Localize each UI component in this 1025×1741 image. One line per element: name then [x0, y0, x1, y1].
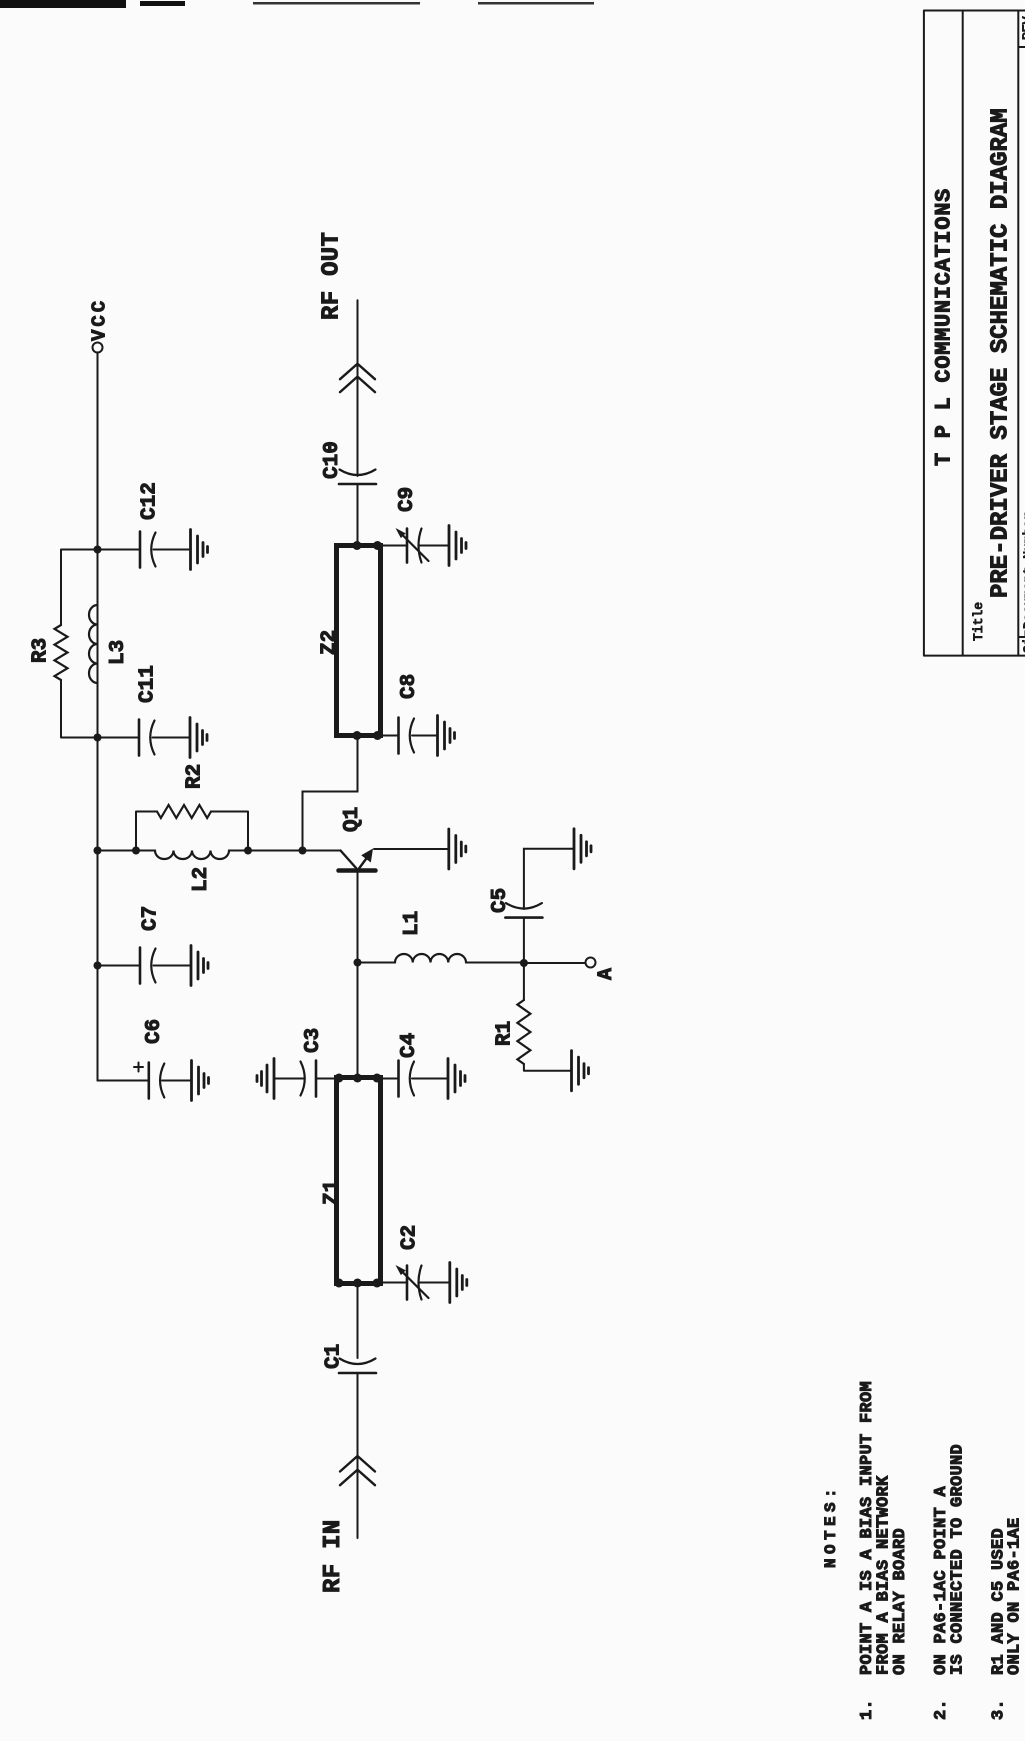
ground C8	[438, 716, 455, 756]
capacitor C8	[381, 674, 438, 754]
transmission line Z2	[319, 541, 383, 740]
svg-text:C12: C12	[139, 482, 162, 520]
capacitor C2 (trimmer)	[381, 1225, 450, 1300]
svg-text:R3: R3	[30, 638, 53, 663]
node VCC/C12 junction	[94, 546, 102, 554]
svg-text:L3: L3	[107, 640, 130, 665]
wire collector to Z2	[303, 736, 358, 851]
capacitor C4	[381, 1033, 448, 1097]
svg-text:3.: 3.	[990, 1699, 1009, 1720]
transmission line Z1	[321, 1074, 382, 1288]
wire R2 branch stubs	[136, 812, 248, 851]
node L1/C5/R1 junction	[520, 959, 528, 967]
svg-text:RF IN: RF IN	[320, 1519, 347, 1593]
svg-text:REV: REV	[1020, 16, 1025, 40]
scan artifact bar	[0, 0, 185, 8]
note 2	[932, 1444, 968, 1720]
svg-text:T P L COMMUNICATIONS: T P L COMMUNICATIONS	[932, 188, 957, 466]
label RF IN	[320, 1519, 347, 1593]
svg-text:PRE-DRIVER STAGE SCHEMATIC DIA: PRE-DRIVER STAGE SCHEMATIC DIAGRAM	[988, 108, 1015, 598]
resistor R1	[494, 963, 572, 1071]
label company name	[932, 188, 957, 466]
label Size (clipped)	[1021, 622, 1025, 653]
svg-text:C11: C11	[137, 665, 160, 703]
arrow RF OUT chevrons	[340, 364, 375, 392]
svg-text:Title: Title	[971, 602, 986, 641]
ground C6	[192, 1061, 209, 1101]
svg-text:R1: R1	[494, 1021, 517, 1046]
node VCC/C11 junction	[94, 734, 102, 742]
arrow RF IN chevrons	[340, 1456, 375, 1485]
wire RF OUT lead	[357, 300, 359, 476]
label RF OUT	[319, 232, 346, 320]
capacitor C7	[98, 906, 191, 984]
resistor R2	[157, 764, 211, 818]
inductor L1	[358, 911, 524, 963]
svg-text:Document Number: Document Number	[1021, 512, 1025, 629]
svg-text:C8: C8	[398, 674, 421, 699]
ground emitter	[449, 829, 466, 869]
capacitor C12	[98, 482, 191, 567]
scan artifact lines	[253, 2, 594, 5]
node VCC/C7 junction	[94, 962, 102, 970]
node collector junction	[299, 847, 307, 855]
svg-text:C4: C4	[398, 1033, 421, 1058]
terminal A	[524, 958, 618, 981]
svg-text:ON RELAY BOARD: ON RELAY BOARD	[891, 1528, 910, 1675]
note 3	[990, 1517, 1025, 1720]
svg-text:C1: C1	[323, 1344, 346, 1369]
wire base line	[357, 872, 359, 1078]
svg-text:C9: C9	[396, 487, 419, 512]
title block border	[924, 11, 1025, 656]
svg-text:C2: C2	[399, 1225, 422, 1250]
svg-text:Z2: Z2	[319, 630, 342, 655]
terminal VCC	[89, 298, 111, 353]
label REV (clipped)	[1020, 16, 1025, 40]
svg-text:L1: L1	[401, 911, 424, 936]
capacitor C3	[275, 1028, 339, 1097]
svg-text:C6: C6	[143, 1019, 166, 1044]
node L2 bottom junction	[244, 847, 252, 855]
label Document Number (clipped)	[1021, 512, 1025, 629]
svg-text:C7: C7	[140, 906, 163, 931]
svg-text:RF OUT: RF OUT	[319, 232, 346, 320]
svg-text:VCC: VCC	[89, 298, 111, 341]
svg-text:NOTES:: NOTES:	[822, 1484, 840, 1568]
capacitor C6 (electrolytic)	[98, 1019, 192, 1099]
capacitor C1	[323, 1284, 377, 1374]
wire VCC rail	[97, 353, 99, 1081]
node VCC/L2 junction	[94, 847, 102, 855]
ground C2	[450, 1263, 467, 1303]
ground C5	[574, 829, 591, 869]
svg-text:1.: 1.	[858, 1699, 877, 1720]
svg-text:2.: 2.	[932, 1699, 951, 1720]
capacitor C5	[489, 849, 574, 963]
svg-text:C5: C5	[489, 888, 512, 913]
node base/L1 junction	[354, 959, 362, 967]
label Title	[971, 602, 986, 641]
ground C3	[257, 1059, 274, 1099]
transistor Q1	[303, 807, 449, 871]
ground C11	[190, 718, 207, 758]
svg-text:R2: R2	[184, 764, 207, 789]
svg-text:C10: C10	[321, 441, 344, 479]
label schematic title	[988, 108, 1015, 598]
capacitor C9 (trimmer)	[381, 487, 449, 563]
ground C9	[449, 526, 466, 566]
svg-text:Z1: Z1	[321, 1180, 344, 1205]
inductor L3	[89, 605, 130, 683]
note 1	[858, 1381, 910, 1720]
label NOTES heading	[822, 1484, 840, 1568]
svg-text:IS CONNECTED TO GROUND: IS CONNECTED TO GROUND	[949, 1444, 968, 1675]
wire RF IN lead	[357, 1373, 359, 1538]
svg-text:L2: L2	[190, 867, 213, 892]
ground C4	[448, 1059, 465, 1099]
ground C12	[191, 530, 208, 570]
capacitor C11	[98, 665, 190, 755]
wire R3 bracket	[61, 550, 98, 738]
node L2 top junction	[132, 847, 140, 855]
wire VCC feed to collector	[98, 850, 303, 852]
svg-text:C3: C3	[302, 1028, 325, 1053]
svg-text:A: A	[595, 968, 618, 980]
capacitor C10	[321, 441, 376, 545]
resistor R3	[30, 625, 68, 680]
svg-text:Q1: Q1	[341, 807, 364, 832]
inductor L2	[155, 851, 229, 893]
svg-text:ONLY ON PA6-1AE: ONLY ON PA6-1AE	[1006, 1517, 1025, 1675]
ground C7	[191, 946, 208, 986]
ground R1	[572, 1051, 589, 1091]
